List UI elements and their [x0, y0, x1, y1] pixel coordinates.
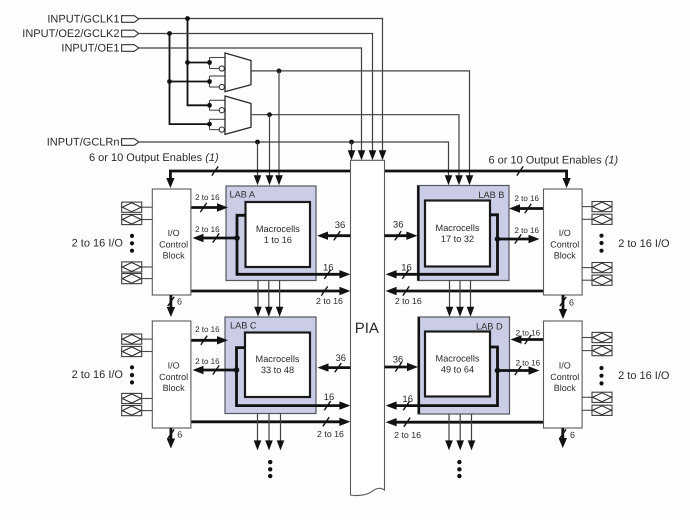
svg-text:16: 16: [401, 262, 412, 273]
I/O cell left top 4: [122, 274, 153, 284]
svg-text:Control: Control: [550, 372, 579, 382]
wire OE2 branch to muxes: [167, 34, 208, 125]
wire mux U1 output: [251, 69, 473, 186]
bus 6-or-10 output enables left: [89, 152, 351, 188]
svg-text:LAB D: LAB D: [476, 322, 503, 332]
svg-text:2 to 16: 2 to 16: [395, 296, 422, 306]
svg-text:LAB C: LAB C: [230, 321, 257, 331]
I/O ellipsis right bottom: [599, 366, 603, 386]
svg-text:LAB B: LAB B: [478, 190, 504, 200]
wire LAB A feedback path and 16 bus to PIA: [237, 215, 350, 279]
svg-text:Control: Control: [550, 239, 579, 249]
wire net GCLRn: [139, 140, 453, 186]
bus LAB B to I/O control 2-to-16: [498, 226, 540, 244]
svg-text:Control: Control: [159, 372, 188, 382]
svg-text:I/O: I/O: [559, 228, 571, 238]
mux U1: [225, 53, 251, 92]
svg-text:Control: Control: [159, 239, 188, 249]
bus I/O control to LAB B 2-to-16: [509, 194, 544, 213]
bus right I/O control to PIA 2-to-16 upper: [386, 286, 544, 306]
macrocells 17 to 32: [425, 201, 490, 267]
node LAB C feedback junction: [234, 367, 240, 373]
ellipsis below LAB C: [268, 460, 272, 478]
svg-text:2 to 16: 2 to 16: [317, 429, 344, 439]
svg-text:2 to 16 I/O: 2 to 16 I/O: [618, 238, 670, 250]
I/O cell right bottom 4: [582, 405, 613, 415]
LAB D block: [418, 317, 510, 414]
svg-text:LAB A: LAB A: [230, 189, 256, 199]
svg-text:36: 36: [393, 355, 404, 366]
svg-text:INPUT/OE1: INPUT/OE1: [61, 42, 119, 54]
input pin INPUT/GCLK1: [47, 13, 138, 25]
bus 6 from right bottom I/O control: [559, 428, 575, 448]
svg-text:Block: Block: [163, 251, 186, 261]
wire net OE1: [139, 48, 365, 160]
svg-text:6: 6: [570, 430, 575, 440]
svg-text:2 to 16 I/O: 2 to 16 I/O: [72, 369, 124, 381]
bus 6 from right top I/O control: [559, 295, 574, 319]
svg-text:2 to 16: 2 to 16: [394, 430, 421, 440]
bus PIA to LAB D 36: [385, 355, 419, 372]
I/O ellipsis right top: [599, 234, 603, 253]
bus left I/O control to PIA 2-to-16 lower: [191, 417, 351, 439]
svg-text:INPUT/OE2/GCLK2: INPUT/OE2/GCLK2: [22, 28, 119, 40]
wire LAB B feedback path and 16 bus to PIA: [386, 215, 498, 279]
svg-text:Macrocells: Macrocells: [256, 224, 300, 234]
bus right I/O control to PIA 2-to-16 lower: [386, 418, 544, 440]
wire net OE2/GCLK2: [139, 31, 376, 160]
I/O ellipsis left bottom: [130, 365, 134, 384]
svg-text:6 or 10 Output Enables (1): 6 or 10 Output Enables (1): [489, 155, 619, 167]
svg-text:6: 6: [177, 430, 182, 440]
I/O control block right top: [544, 189, 583, 295]
svg-text:36: 36: [393, 220, 404, 231]
svg-text:16: 16: [402, 394, 413, 405]
svg-text:INPUT/GCLRn: INPUT/GCLRn: [47, 136, 120, 148]
I/O cell left top 2: [122, 214, 153, 224]
bus PIA to LAB B 36: [385, 220, 418, 241]
wires LAB A to LAB C: [254, 281, 283, 317]
I/O ellipsis left top: [130, 234, 134, 253]
svg-text:2 to 16: 2 to 16: [516, 329, 541, 338]
bus I/O control to LAB A 2-to-16: [191, 193, 228, 212]
svg-text:2 to 16: 2 to 16: [514, 226, 539, 235]
wires below LAB D: [445, 414, 475, 450]
svg-text:I/O: I/O: [168, 361, 180, 371]
LAB A block: [226, 186, 316, 281]
svg-text:Macrocells: Macrocells: [256, 354, 300, 364]
ellipsis below LAB D: [457, 460, 461, 478]
bus left I/O control to PIA 2-to-16 upper: [191, 286, 351, 306]
input pin INPUT/GCLRn: [47, 136, 139, 148]
wire GCLK1 branch to muxes: [185, 19, 208, 106]
I/O control block right bottom: [544, 321, 583, 428]
wire mux U2 output: [251, 112, 463, 185]
svg-text:16: 16: [323, 262, 334, 273]
I/O cell right top 3: [582, 263, 613, 273]
I/O control block left top: [152, 189, 191, 295]
svg-text:I/O: I/O: [559, 361, 571, 371]
bus LAB C to I/O control 2-to-16: [193, 357, 237, 375]
svg-text:1 to 16: 1 to 16: [264, 235, 292, 245]
I/O cell right bottom 3: [582, 392, 613, 402]
svg-text:2 to 16 I/O: 2 to 16 I/O: [72, 238, 124, 250]
svg-text:2 to 16: 2 to 16: [195, 225, 220, 234]
svg-text:36: 36: [336, 353, 347, 364]
wires LAB B to LAB D: [446, 281, 475, 317]
I/O cell right top 4: [582, 275, 613, 285]
svg-text:INPUT/GCLK1: INPUT/GCLK1: [47, 13, 119, 25]
macrocells 49 to 64: [425, 332, 490, 397]
LAB B block: [418, 186, 510, 281]
svg-text:2 to 16 I/O: 2 to 16 I/O: [618, 370, 670, 382]
I/O cell left bottom 2: [122, 346, 153, 356]
svg-text:PIA: PIA: [355, 320, 379, 337]
bus I/O control to LAB C 2-to-16: [191, 325, 228, 345]
I/O cell left top 3: [122, 262, 153, 272]
svg-text:6 or 10 Output Enables (1): 6 or 10 Output Enables (1): [89, 152, 219, 164]
bus PIA to LAB A 36: [317, 220, 351, 240]
svg-text:Block: Block: [554, 251, 577, 261]
bus 6 from left top I/O control: [167, 295, 182, 317]
I/O cell right bottom 1: [582, 332, 613, 342]
wire net GCLK1: [139, 16, 386, 160]
mux U2 inputs: [207, 100, 225, 132]
I/O cell left bottom 1: [122, 334, 153, 344]
I/O cell right top 2: [582, 214, 613, 224]
svg-text:2 to 16: 2 to 16: [195, 193, 220, 202]
svg-text:2 to 16: 2 to 16: [514, 194, 539, 203]
svg-text:6: 6: [569, 297, 574, 307]
svg-text:2 to 16: 2 to 16: [316, 296, 343, 306]
input pin INPUT/OE2/GCLK2: [22, 28, 139, 40]
svg-text:49 to 64: 49 to 64: [441, 365, 474, 375]
macrocells 33 to 48: [245, 333, 310, 398]
I/O cell right bottom 2: [582, 346, 613, 356]
PIA block: [351, 160, 385, 495]
svg-text:Macrocells: Macrocells: [436, 223, 480, 233]
svg-text:33 to 48: 33 to 48: [261, 365, 294, 375]
svg-text:I/O: I/O: [168, 228, 180, 238]
wire LAB D feedback path and 16 bus to PIA: [386, 347, 498, 410]
svg-text:2 to 16: 2 to 16: [195, 325, 220, 334]
bus PIA to LAB C 36: [318, 353, 351, 372]
input pin INPUT/OE1: [61, 42, 138, 54]
svg-text:Block: Block: [163, 383, 186, 393]
svg-text:17 to 32: 17 to 32: [441, 234, 474, 244]
bus I/O control to LAB D 2-to-16: [511, 329, 544, 345]
svg-text:2 to 16: 2 to 16: [516, 359, 541, 368]
svg-text:6: 6: [177, 296, 182, 306]
svg-text:16: 16: [324, 392, 335, 403]
svg-text:36: 36: [335, 220, 346, 231]
I/O control block left bottom: [152, 321, 191, 428]
svg-text:Macrocells: Macrocells: [436, 354, 480, 364]
bus 6 from left bottom I/O control: [167, 428, 183, 449]
mux U2: [225, 96, 251, 134]
mux U1 inputs: [207, 58, 225, 90]
I/O cell right top 1: [582, 202, 613, 212]
LAB C block: [225, 317, 316, 414]
wires below LAB C: [254, 414, 285, 451]
node LAB B feedback junction: [495, 236, 501, 242]
svg-text:Block: Block: [554, 383, 577, 393]
I/O cell left bottom 4: [122, 406, 153, 416]
I/O cell left top 1: [122, 202, 153, 212]
node LAB A feedback junction: [234, 235, 240, 241]
node LAB D feedback junction: [495, 368, 501, 374]
bus 6-or-10 output enables right: [385, 155, 619, 189]
svg-text:2 to 16: 2 to 16: [195, 357, 220, 366]
I/O cell left bottom 3: [122, 393, 153, 403]
macrocells 1 to 16: [246, 202, 311, 267]
bus LAB D to I/O control 2-to-16: [498, 359, 541, 376]
wire LAB C feedback path and 16 bus to PIA: [237, 348, 351, 411]
bus LAB A to I/O control 2-to-16: [193, 225, 238, 243]
